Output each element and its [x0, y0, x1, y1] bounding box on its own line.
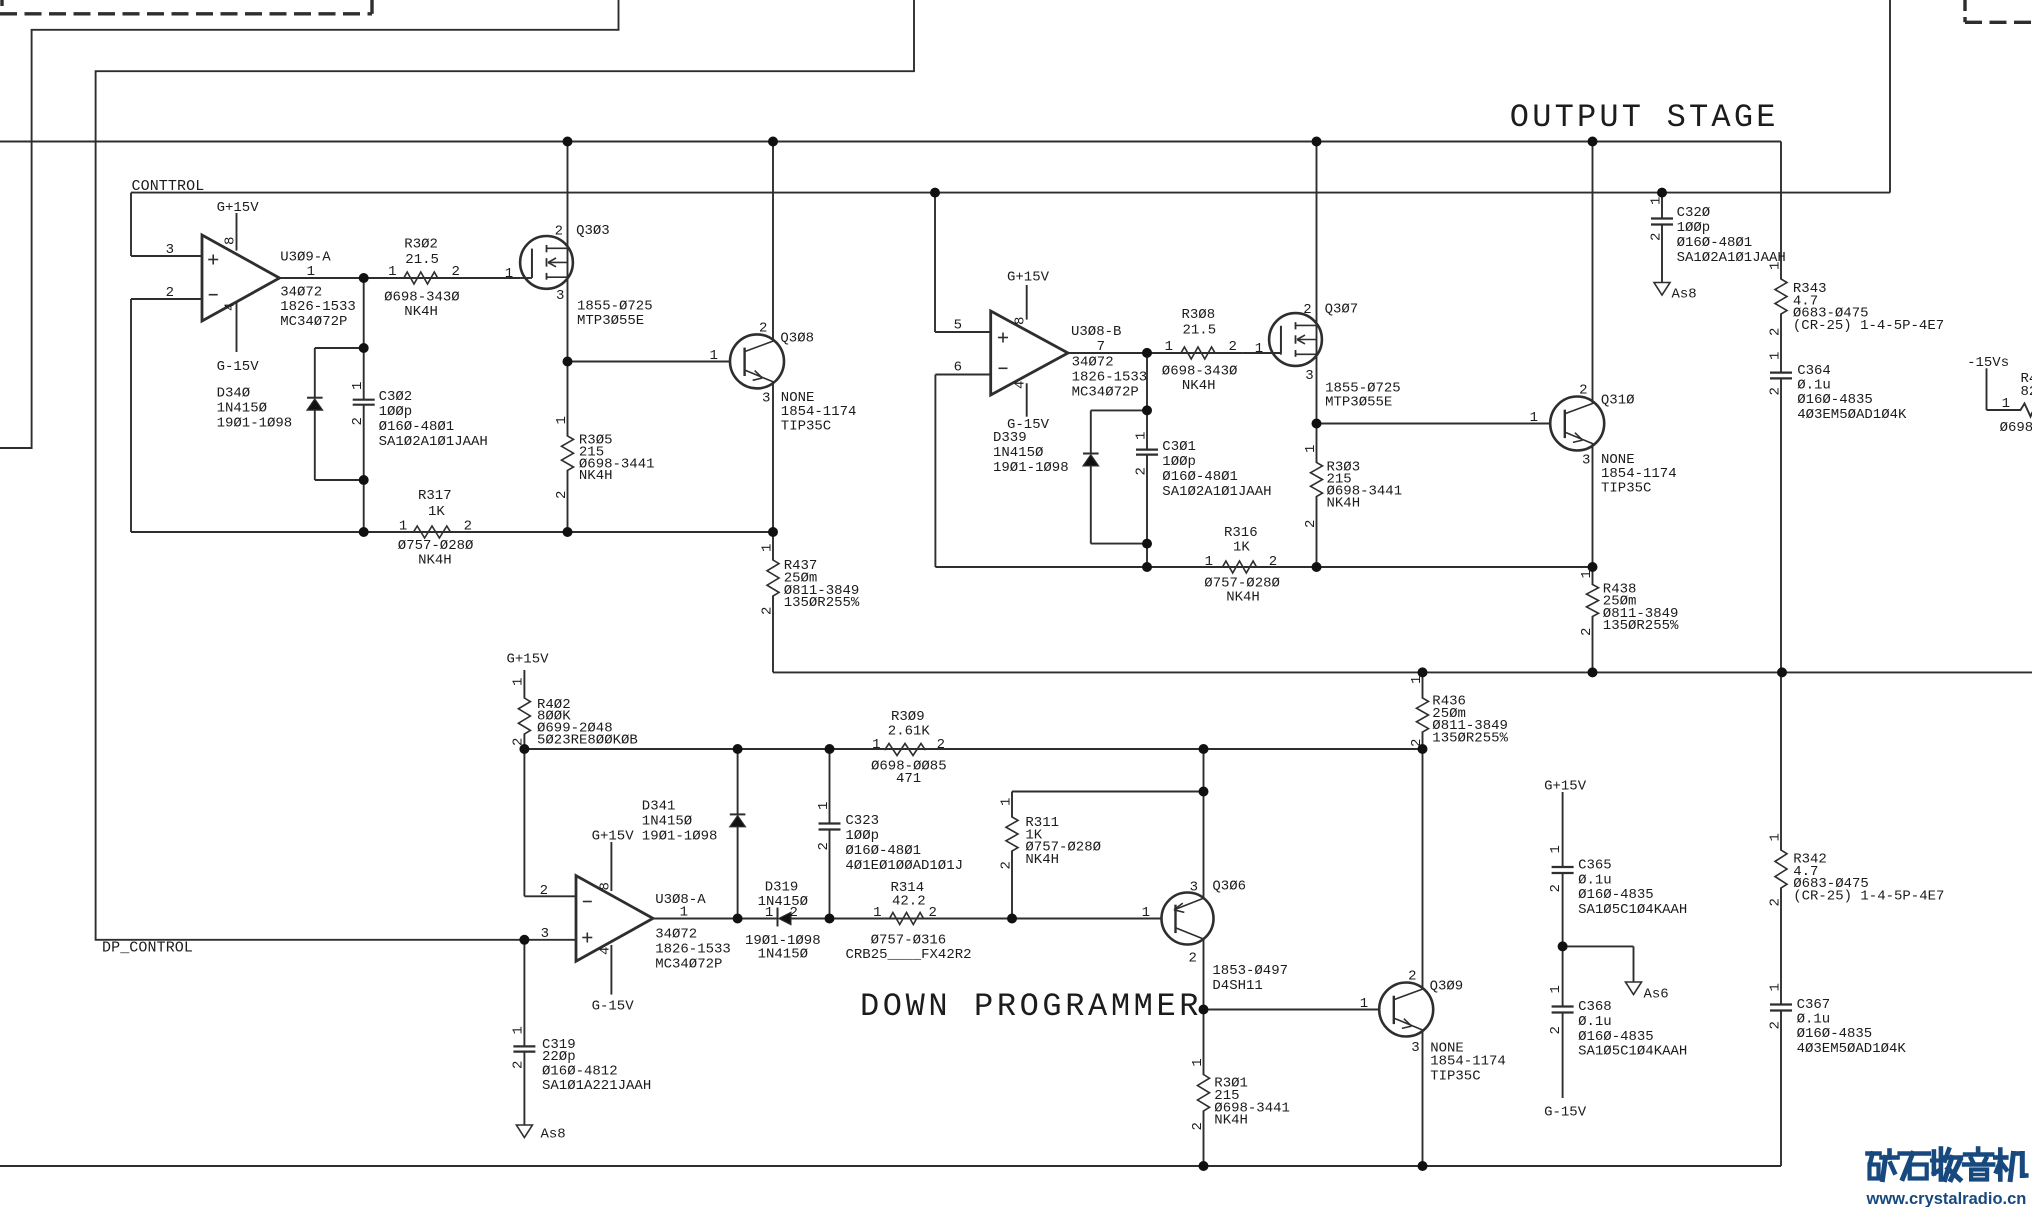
svg-text:34Ø72: 34Ø72 — [1072, 354, 1114, 370]
svg-text:1: 1 — [1255, 341, 1263, 357]
svg-text:D339: D339 — [993, 430, 1027, 446]
svg-text:G-15V: G-15V — [1544, 1105, 1587, 1121]
svg-text:19Ø1-1Ø98: 19Ø1-1Ø98 — [217, 416, 293, 432]
svg-text:1: 1 — [1133, 432, 1149, 440]
svg-text:MTP3Ø55E: MTP3Ø55E — [577, 313, 644, 329]
svg-text:21.5: 21.5 — [1183, 322, 1217, 338]
svg-text:3: 3 — [1190, 880, 1198, 896]
svg-text:1: 1 — [709, 348, 717, 364]
svg-text:2: 2 — [937, 737, 945, 753]
svg-text:NK4H: NK4H — [1182, 378, 1216, 394]
svg-text:3: 3 — [166, 242, 174, 258]
svg-text:1K: 1K — [1233, 540, 1250, 556]
svg-text:2: 2 — [1408, 969, 1416, 985]
svg-text:DP_CONTROL: DP_CONTROL — [102, 940, 193, 957]
svg-text:2: 2 — [511, 738, 527, 746]
svg-text:3: 3 — [1305, 368, 1313, 384]
svg-text:135ØR255%: 135ØR255% — [1603, 618, 1679, 634]
svg-text:1: 1 — [1360, 996, 1368, 1012]
svg-text:7: 7 — [1097, 339, 1105, 355]
svg-text:SA1Ø5C1Ø4KAAH: SA1Ø5C1Ø4KAAH — [1578, 1044, 1687, 1060]
svg-text:1: 1 — [1530, 410, 1538, 426]
svg-text:471: 471 — [896, 771, 921, 787]
svg-text:1: 1 — [1579, 570, 1595, 578]
svg-text:As8: As8 — [1672, 287, 1697, 303]
svg-text:C3Ø2: C3Ø2 — [379, 389, 413, 405]
svg-text:2: 2 — [929, 905, 937, 921]
svg-text:1ØØp: 1ØØp — [845, 828, 879, 844]
svg-text:1: 1 — [765, 905, 773, 921]
svg-text:3: 3 — [762, 391, 770, 407]
svg-text:2: 2 — [1767, 328, 1783, 336]
svg-text:1ØØp: 1ØØp — [1677, 220, 1711, 236]
svg-text:8: 8 — [1013, 317, 1029, 325]
svg-text:CONTTROL: CONTTROL — [132, 178, 205, 195]
svg-text:Q3Ø3: Q3Ø3 — [576, 223, 610, 239]
svg-text:3: 3 — [1411, 1040, 1419, 1056]
svg-text:MTP3Ø55E: MTP3Ø55E — [1325, 394, 1392, 410]
svg-text:3: 3 — [541, 926, 549, 942]
svg-text:OUTPUT STAGE: OUTPUT STAGE — [1510, 99, 1779, 136]
svg-text:2: 2 — [759, 607, 775, 615]
svg-text:4Ø1EØ1ØØAD1Ø1J: 4Ø1EØ1ØØAD1Ø1J — [845, 858, 963, 874]
svg-text:Q3Ø6: Q3Ø6 — [1212, 878, 1246, 894]
svg-text:1K: 1K — [428, 504, 445, 520]
svg-text:C364: C364 — [1797, 363, 1831, 379]
svg-text:Ø698: Ø698 — [2000, 420, 2032, 436]
svg-text:(CR-25) 1-4-5P-4E7: (CR-25) 1-4-5P-4E7 — [1793, 888, 1944, 904]
svg-text:Ø.1u: Ø.1u — [1797, 378, 1831, 394]
svg-text:2: 2 — [1579, 628, 1595, 636]
svg-text:2: 2 — [1189, 951, 1197, 967]
svg-text:19Ø1-1Ø98: 19Ø1-1Ø98 — [642, 828, 718, 844]
svg-text:1N415Ø: 1N415Ø — [758, 947, 808, 963]
svg-text:As6: As6 — [1644, 987, 1669, 1003]
svg-text:G+15V: G+15V — [507, 651, 550, 667]
svg-text:DOWN PROGRAMMER: DOWN PROGRAMMER — [860, 988, 1202, 1025]
svg-text:2.61K: 2.61K — [888, 724, 931, 740]
svg-text:CRB25____FX42R2: CRB25____FX42R2 — [846, 947, 972, 963]
svg-text:As8: As8 — [541, 1127, 566, 1143]
svg-text:1: 1 — [872, 737, 880, 753]
svg-text:G+15V: G+15V — [217, 200, 260, 216]
svg-text:SA1Ø1A221JAAH: SA1Ø1A221JAAH — [542, 1078, 651, 1094]
svg-text:C3Ø1: C3Ø1 — [1162, 439, 1196, 455]
svg-text:www.crystalradio.cn: www.crystalradio.cn — [1866, 1190, 2027, 1207]
svg-text:2: 2 — [1190, 1122, 1206, 1130]
svg-text:5Ø23RE8ØØKØB: 5Ø23RE8ØØKØB — [537, 733, 638, 749]
svg-text:Ø16Ø-48Ø1: Ø16Ø-48Ø1 — [1677, 235, 1753, 251]
svg-text:2: 2 — [816, 842, 832, 850]
svg-text:D4SH11: D4SH11 — [1212, 978, 1262, 994]
svg-text:4Ø3EM5ØAD1Ø4K: 4Ø3EM5ØAD1Ø4K — [1797, 1041, 1907, 1057]
svg-text:1826-1533: 1826-1533 — [280, 299, 356, 315]
svg-text:NK4H: NK4H — [1214, 1113, 1248, 1129]
svg-text:R3Ø2: R3Ø2 — [404, 237, 438, 253]
svg-text:1N415Ø: 1N415Ø — [217, 401, 267, 417]
svg-text:Ø.1u: Ø.1u — [1578, 1014, 1612, 1030]
svg-text:NK4H: NK4H — [579, 468, 613, 484]
svg-text:1ØØp: 1ØØp — [379, 404, 413, 420]
svg-text:1826-1533: 1826-1533 — [655, 942, 731, 958]
svg-text:1: 1 — [554, 416, 570, 424]
svg-text:2: 2 — [554, 491, 570, 499]
svg-text:C365: C365 — [1578, 857, 1612, 873]
svg-text:1: 1 — [873, 905, 881, 921]
svg-text:1853-Ø497: 1853-Ø497 — [1212, 963, 1288, 979]
svg-text:2: 2 — [1548, 1026, 1564, 1034]
svg-text:2: 2 — [1303, 520, 1319, 528]
svg-text:34Ø72: 34Ø72 — [655, 927, 697, 943]
svg-text:1ØØp: 1ØØp — [1162, 454, 1196, 470]
svg-text:Ø.1u: Ø.1u — [1797, 1012, 1831, 1028]
svg-text:1: 1 — [2002, 396, 2010, 412]
svg-text:D341: D341 — [642, 798, 676, 814]
svg-text:1826-1533: 1826-1533 — [1072, 369, 1148, 385]
svg-text:21.5: 21.5 — [405, 252, 439, 268]
svg-text:C32Ø: C32Ø — [1677, 205, 1711, 221]
svg-text:4: 4 — [1013, 381, 1029, 389]
svg-text:U3Ø8-B: U3Ø8-B — [1071, 324, 1121, 340]
svg-text:1N415Ø: 1N415Ø — [993, 445, 1043, 461]
svg-text:G-15V: G-15V — [217, 359, 260, 375]
svg-text:SA1Ø2A1Ø1JAAH: SA1Ø2A1Ø1JAAH — [379, 434, 488, 450]
svg-text:2: 2 — [1133, 467, 1149, 475]
svg-text:1: 1 — [998, 798, 1014, 806]
svg-text:Ø16Ø-4835: Ø16Ø-4835 — [1578, 887, 1654, 903]
svg-text:Ø16Ø-48Ø1: Ø16Ø-48Ø1 — [845, 843, 921, 859]
svg-text:2: 2 — [555, 224, 563, 240]
svg-text:(CR-25) 1-4-5P-4E7: (CR-25) 1-4-5P-4E7 — [1793, 318, 1944, 334]
svg-text:2: 2 — [1409, 739, 1425, 747]
svg-text:3: 3 — [556, 288, 564, 304]
svg-text:5: 5 — [954, 318, 962, 334]
svg-text:SA1Ø5C1Ø4KAAH: SA1Ø5C1Ø4KAAH — [1578, 902, 1687, 918]
svg-text:135ØR255%: 135ØR255% — [784, 595, 860, 611]
svg-text:1: 1 — [759, 544, 775, 552]
svg-text:2: 2 — [790, 905, 798, 921]
svg-text:1854-1174: 1854-1174 — [1430, 1054, 1506, 1070]
svg-text:2: 2 — [1648, 233, 1664, 241]
svg-text:Q3Ø8: Q3Ø8 — [780, 330, 814, 346]
svg-text:C368: C368 — [1578, 999, 1612, 1015]
svg-text:1: 1 — [680, 905, 688, 921]
svg-text:-15Vs: -15Vs — [1967, 355, 2009, 371]
svg-text:4Ø3EM5ØAD1Ø4K: 4Ø3EM5ØAD1Ø4K — [1797, 407, 1907, 423]
svg-text:R317: R317 — [418, 488, 452, 504]
svg-text:Q3Ø7: Q3Ø7 — [1325, 302, 1359, 318]
svg-text:C323: C323 — [845, 813, 879, 829]
svg-text:NK4H: NK4H — [1226, 590, 1260, 606]
svg-text:1: 1 — [307, 264, 315, 280]
svg-text:Q3Ø9: Q3Ø9 — [1430, 979, 1464, 995]
svg-text:Ø16Ø-4835: Ø16Ø-4835 — [1797, 392, 1873, 408]
svg-text:R3Ø8: R3Ø8 — [1182, 307, 1216, 323]
svg-text:Ø16Ø-4835: Ø16Ø-4835 — [1797, 1026, 1873, 1042]
svg-text:1: 1 — [1767, 833, 1783, 841]
svg-text:2: 2 — [1767, 387, 1783, 395]
svg-text:6: 6 — [954, 359, 962, 375]
svg-text:D34Ø: D34Ø — [217, 386, 251, 402]
svg-text:2: 2 — [759, 320, 767, 336]
svg-text:TIP35C: TIP35C — [1430, 1069, 1480, 1085]
svg-text:G+15V: G+15V — [592, 828, 635, 844]
svg-text:8: 8 — [223, 237, 239, 245]
svg-text:Ø16Ø-48Ø1: Ø16Ø-48Ø1 — [1162, 469, 1238, 485]
svg-text:135ØR255%: 135ØR255% — [1432, 731, 1508, 747]
svg-text:MC34Ø72P: MC34Ø72P — [655, 957, 722, 973]
svg-text:2: 2 — [1767, 1021, 1783, 1029]
svg-text:1: 1 — [816, 802, 832, 810]
svg-text:1: 1 — [1409, 676, 1425, 684]
svg-text:1: 1 — [1303, 445, 1319, 453]
svg-text:2: 2 — [350, 417, 366, 425]
svg-text:1: 1 — [1165, 339, 1173, 355]
svg-text:1N415Ø: 1N415Ø — [642, 813, 692, 829]
svg-text:1: 1 — [1767, 262, 1783, 270]
svg-text:2: 2 — [1269, 554, 1277, 570]
svg-text:MC34Ø72P: MC34Ø72P — [1072, 384, 1139, 400]
svg-text:Ø16Ø-4835: Ø16Ø-4835 — [1578, 1029, 1654, 1045]
svg-text:1: 1 — [1142, 905, 1150, 921]
svg-text:19Ø1-1Ø98: 19Ø1-1Ø98 — [993, 460, 1069, 476]
svg-text:NK4H: NK4H — [1327, 495, 1361, 511]
svg-text:2: 2 — [1579, 383, 1587, 399]
svg-text:82: 82 — [2021, 384, 2032, 400]
svg-text:Ø.1u: Ø.1u — [1578, 872, 1612, 888]
svg-text:2: 2 — [166, 285, 174, 301]
svg-text:2: 2 — [540, 883, 548, 899]
svg-text:Q31Ø: Q31Ø — [1601, 393, 1635, 409]
svg-text:C367: C367 — [1797, 997, 1831, 1013]
svg-text:2: 2 — [464, 519, 472, 535]
svg-text:1: 1 — [1767, 352, 1783, 360]
svg-text:2: 2 — [1548, 884, 1564, 892]
svg-text:42.2: 42.2 — [892, 893, 926, 909]
svg-text:4: 4 — [597, 947, 613, 955]
svg-text:2: 2 — [452, 264, 460, 280]
svg-text:R3Ø9: R3Ø9 — [891, 709, 925, 725]
svg-text:1: 1 — [388, 264, 396, 280]
svg-text:8: 8 — [597, 882, 613, 890]
svg-text:2: 2 — [1303, 302, 1311, 318]
svg-text:MC34Ø72P: MC34Ø72P — [280, 314, 347, 330]
svg-text:2: 2 — [1229, 339, 1237, 355]
svg-text:34Ø72: 34Ø72 — [280, 284, 322, 300]
svg-text:1: 1 — [1548, 985, 1564, 993]
svg-text:TIP35C: TIP35C — [781, 418, 831, 434]
svg-text:1: 1 — [399, 519, 407, 535]
svg-text:1: 1 — [1767, 983, 1783, 991]
svg-text:NK4H: NK4H — [1025, 852, 1059, 868]
svg-text:1: 1 — [511, 1026, 527, 1034]
svg-text:Ø757-Ø28Ø: Ø757-Ø28Ø — [398, 538, 474, 554]
svg-text:G+15V: G+15V — [1007, 270, 1050, 286]
svg-text:1: 1 — [1648, 197, 1664, 205]
svg-text:2: 2 — [511, 1061, 527, 1069]
svg-text:SA1Ø2A1Ø1JAAH: SA1Ø2A1Ø1JAAH — [1162, 484, 1271, 500]
svg-text:2: 2 — [1767, 898, 1783, 906]
svg-text:NK4H: NK4H — [418, 553, 452, 569]
svg-text:3: 3 — [1582, 453, 1590, 469]
svg-text:1: 1 — [505, 266, 513, 282]
svg-text:1: 1 — [1190, 1058, 1206, 1066]
svg-text:TIP35C: TIP35C — [1601, 481, 1651, 497]
svg-text:1: 1 — [1205, 554, 1213, 570]
svg-text:Ø16Ø-48Ø1: Ø16Ø-48Ø1 — [379, 419, 455, 435]
svg-text:1: 1 — [350, 382, 366, 390]
svg-text:NK4H: NK4H — [404, 304, 438, 320]
svg-text:G+15V: G+15V — [1544, 778, 1587, 794]
svg-text:4: 4 — [223, 303, 239, 311]
svg-text:G-15V: G-15V — [592, 999, 635, 1015]
svg-text:1: 1 — [511, 678, 527, 686]
svg-text:1: 1 — [1548, 845, 1564, 853]
svg-text:2: 2 — [998, 861, 1014, 869]
